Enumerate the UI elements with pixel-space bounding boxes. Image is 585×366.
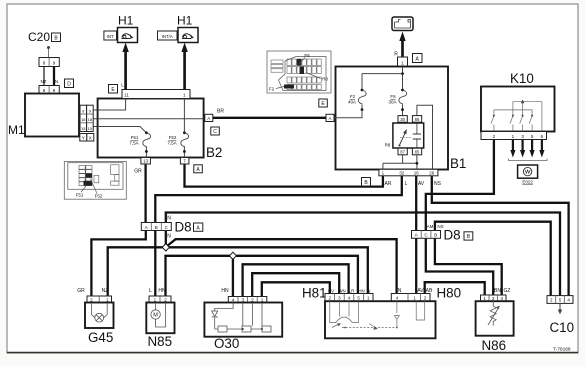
B2 box: [98, 99, 204, 158]
relay pin box 30: [398, 116, 407, 123]
svg-text:B: B: [434, 233, 437, 238]
B2 right edge pin box A: [205, 114, 213, 121]
svg-text:GR: GR: [77, 288, 85, 294]
C10 stub arrow: [559, 303, 561, 310]
svg-text:H1: H1: [118, 14, 134, 28]
K10 box: [481, 87, 555, 132]
svg-text:40A: 40A: [348, 100, 356, 105]
svg-text:BN: BN: [494, 288, 501, 294]
G45 pin strip 2 1: [87, 296, 112, 303]
boxed letter X: [87, 134, 94, 142]
boxed letter E near B1: [319, 99, 328, 107]
inset fusebox location F51 F52: [64, 162, 126, 200]
boxed letter B at C20: [52, 33, 61, 42]
svg-text:LR: LR: [349, 289, 355, 294]
icon intermittent wiper 2: [178, 28, 198, 43]
N86 resistor symbol: [488, 301, 499, 325]
relay R8 coil wire 86 to pin 26: [417, 105, 433, 169]
svg-text:A: A: [328, 116, 331, 121]
N86 pin strip 1 2 3: [481, 295, 507, 301]
wire L B1 pin32 to D8 cell B to N85 pin1: [155, 176, 401, 297]
svg-text:NS: NS: [434, 181, 442, 187]
N86 box: [476, 301, 514, 336]
boxed letter B near B1: [362, 178, 371, 187]
battery arrow: [401, 38, 404, 57]
svg-text:NZ: NZ: [102, 288, 109, 294]
N85 motor symbol: [151, 303, 166, 328]
svg-text:E022: E022: [522, 180, 533, 185]
relay R8 coil: [400, 137, 412, 139]
wire BN D8 right cell C to N86 pin2: [426, 238, 493, 296]
N85 box: [146, 303, 174, 334]
svg-text:WN: WN: [338, 289, 345, 294]
node B junction diamond: [229, 252, 236, 259]
boxed INT: [104, 31, 117, 40]
B2 internal wire pin11 to row9: [98, 99, 126, 111]
svg-text:M: M: [153, 313, 158, 319]
C10 pin strip 2 5 4: [547, 296, 573, 304]
node A junction diamond: [162, 244, 169, 251]
svg-text:30: 30: [400, 117, 405, 122]
svg-text:A: A: [207, 116, 210, 121]
svg-text:O30: O30: [214, 336, 239, 351]
connector D8 left strip A B C: [141, 223, 171, 231]
wire N node to H81 pin 1: [166, 247, 368, 294]
icon intermittent wiper 1: [118, 28, 138, 43]
O30 pin strip 4 3 2 1: [228, 297, 266, 303]
B2 bottom pin box 7: [180, 158, 189, 165]
svg-text:NZ: NZ: [41, 79, 47, 84]
svg-text:HN: HN: [158, 288, 166, 294]
wire NZ node N to G45 pin 1: [108, 247, 166, 296]
svg-text:87: 87: [400, 150, 405, 155]
fuse F51: [145, 131, 148, 134]
svg-text:L: L: [149, 288, 152, 294]
svg-text:F8: F8: [304, 53, 310, 58]
boxed letter B at D8 right: [464, 232, 473, 240]
svg-text:16: 16: [414, 171, 420, 176]
svg-text:BR: BR: [217, 109, 224, 115]
boxed letter E near B2: [109, 85, 118, 94]
wire NS B1 pin26 to C10 pin4: [432, 176, 569, 296]
svg-text:N86: N86: [482, 338, 507, 353]
svg-text:13: 13: [143, 159, 149, 164]
svg-text:11: 11: [124, 93, 129, 98]
svg-text:INT: INT: [107, 34, 114, 39]
svg-text:18: 18: [81, 117, 86, 122]
switch unit box H81 H80: [325, 301, 436, 338]
svg-text:D8: D8: [175, 220, 192, 235]
relay pin box 85: [412, 148, 421, 155]
relay pin box 86: [412, 116, 421, 123]
lamp H1 arrow from B2 pin 11: [124, 49, 127, 90]
H81 pin strip 2 3 4 5 1: [325, 294, 373, 302]
svg-text:86: 86: [415, 117, 420, 122]
wire N C20 pin9 to M1 pin9: [53, 66, 55, 86]
boxed letter D: [65, 79, 74, 88]
K10 internal switches: [491, 102, 542, 132]
svg-text:G45: G45: [88, 330, 113, 345]
boxed INT/A: [158, 31, 178, 40]
svg-text:X: X: [89, 135, 92, 140]
svg-text:D8: D8: [444, 228, 461, 243]
connector column Y pins 9 18 15: [80, 105, 87, 131]
svg-text:HN: HN: [221, 288, 229, 294]
connector column X pins 9 18 15: [87, 105, 94, 131]
B1 top pin box 1: [398, 57, 408, 67]
svg-text:M1: M1: [8, 123, 25, 137]
boxed letter A at battery: [413, 54, 423, 63]
svg-text:AR: AR: [385, 181, 392, 187]
B1 box: [336, 67, 449, 170]
M1 top pin strip 8 9: [39, 86, 59, 94]
switch internals: [330, 301, 425, 328]
svg-text:T-79168: T-79168: [553, 347, 571, 353]
svg-text:N: N: [167, 234, 171, 240]
svg-text:HN: HN: [358, 289, 364, 294]
svg-text:C10: C10: [550, 320, 575, 335]
B2 top pin strip pins 11 and 1: [122, 90, 190, 99]
relay pin box 87: [398, 148, 407, 155]
wire HN branch to O30 pin 4: [232, 256, 234, 297]
M1 box: [25, 94, 79, 137]
wire GZ D8 right cell B to N86 pin3: [435, 238, 502, 296]
svg-text:7,5A: 7,5A: [129, 141, 138, 146]
svg-text:GR: GR: [134, 169, 142, 175]
fuse F2 40A: [361, 89, 364, 92]
svg-text:R8: R8: [322, 77, 328, 82]
svg-text:H80: H80: [437, 286, 462, 301]
B2 internal row18: [98, 118, 204, 120]
svg-text:AV: AV: [418, 181, 425, 187]
svg-text:26: 26: [429, 171, 435, 176]
svg-text:F52: F52: [169, 135, 177, 140]
svg-text:N: N: [167, 216, 171, 222]
svg-text:N: N: [55, 79, 58, 84]
svg-text:B: B: [155, 225, 158, 230]
wire from F2 to left edge A: [334, 110, 362, 118]
wire NZ C20 pin8 to M1 pin8: [43, 66, 45, 86]
svg-text:Y: Y: [82, 135, 85, 140]
H80 pin strip 4 1 2: [391, 294, 430, 302]
boxed letter A near B2 pin7: [194, 165, 203, 173]
wire AV D8 right cell A to H80 pin1: [415, 238, 417, 294]
svg-text:H81: H81: [302, 286, 327, 301]
svg-text:A: A: [145, 225, 148, 230]
relay R8 contact: [400, 131, 407, 145]
svg-text:32: 32: [399, 171, 405, 176]
svg-text:F2: F2: [269, 87, 275, 92]
svg-text:F52: F52: [95, 194, 103, 199]
svg-text:30A: 30A: [388, 100, 396, 105]
svg-text:N85: N85: [148, 334, 173, 349]
svg-text:D: D: [67, 81, 71, 87]
svg-text:N: N: [367, 289, 370, 294]
svg-text:B1: B1: [450, 156, 466, 171]
B1 internal feed junction: [402, 67, 404, 90]
C20 stub symbol: [48, 49, 50, 58]
wire N D8 cell C down to node: [165, 230, 167, 247]
fuse F6 30A: [401, 89, 404, 92]
wire row pin18 M1 to B2 (through to right edge of B2): [79, 118, 204, 120]
svg-text:K10: K10: [510, 71, 534, 86]
O30 box: [204, 303, 282, 337]
ground bracket line: [509, 159, 548, 161]
wire NS D8 right cell B up to C10 pin2: [435, 222, 551, 296]
B1 left edge pin box A: [326, 114, 334, 121]
B2 internal row15 to fuse: [98, 127, 147, 133]
svg-text:A: A: [415, 233, 418, 238]
svg-text:F2: F2: [350, 94, 356, 99]
G45 lamp symbol: [91, 303, 107, 323]
svg-text:C: C: [213, 129, 217, 135]
svg-text:INT/A: INT/A: [162, 34, 173, 39]
relay R8 box: [393, 123, 424, 148]
wire AM K10 pin2 to D8 right cell C: [426, 140, 494, 231]
lamp H1 arrow from B2 pin 1: [183, 49, 186, 90]
battery icon: [392, 17, 413, 31]
O30 internal diode and resistors: [215, 303, 271, 330]
boxed letter C: [211, 127, 220, 135]
wire LR O30 pin3 to H81 pin4: [243, 264, 349, 297]
wire WN O30 pin2 to H81 pin3: [252, 273, 339, 297]
svg-text:18: 18: [88, 117, 93, 122]
N85 pin strip 1 2: [149, 296, 171, 303]
svg-text:C20: C20: [28, 30, 50, 44]
wire row pin9 M1 to B2: [79, 109, 126, 111]
wire BR B2 to B1: [212, 117, 327, 119]
wire N node diagonal to H80 pin 4: [167, 239, 397, 294]
wire AB H80 pin2 to N86 pin1: [425, 282, 485, 295]
G45 box: [85, 303, 114, 329]
B2 bottom pin box 13: [141, 158, 151, 165]
svg-text:HV: HV: [328, 289, 334, 294]
wire row pin15 M1 to B2 fuse F51: [79, 127, 146, 133]
svg-text:F51: F51: [131, 135, 139, 140]
connector D8 right strip A C B: [412, 231, 441, 239]
svg-text:B2: B2: [206, 145, 222, 160]
inset fusebox location F8 R8 F2: [267, 51, 331, 93]
connector C20 pin strip 8 9: [39, 58, 59, 67]
relay R8 output wire 87 to pin1 and pin16: [402, 155, 404, 164]
wire HV O30 pin1 to H81 pin2: [262, 282, 330, 297]
ground point E022 box: [518, 165, 538, 178]
wire GR D8 cell A to G45 pin 2: [91, 230, 145, 296]
svg-text:15: 15: [81, 126, 86, 131]
svg-text:7,5A: 7,5A: [167, 141, 176, 146]
svg-text:R8: R8: [385, 143, 391, 148]
svg-text:H1: H1: [177, 14, 193, 28]
fuse F52: [183, 99, 185, 133]
wire N loop D8 cell C up to C10 pin 5: [166, 213, 560, 296]
svg-text:15: 15: [88, 126, 93, 131]
svg-text:85: 85: [415, 150, 420, 155]
svg-text:GZ: GZ: [504, 288, 511, 294]
K10 ground arrows pins 1 3 5 6: [513, 140, 542, 152]
K10 pin strip 2 1 3 5 6: [481, 132, 547, 140]
B1 bottom pin strip 1 32 16 26: [379, 169, 438, 176]
svg-text:F51: F51: [76, 193, 84, 198]
svg-text:AM: AM: [427, 224, 434, 229]
boxed letter A at D8 left: [194, 223, 203, 231]
wire GR B2 pin13 to D8 left cell A: [144, 164, 146, 224]
svg-text:F6: F6: [390, 94, 396, 99]
wire AR B2 pin7 to B1 pin1: [185, 164, 383, 187]
wire AV B1 pin16 to D8 right cell A: [415, 176, 417, 231]
wire HN N85 pin2 corner to H81 pin 5: [166, 256, 358, 296]
boxed letter Y: [80, 134, 87, 142]
svg-text:L: L: [405, 181, 408, 187]
